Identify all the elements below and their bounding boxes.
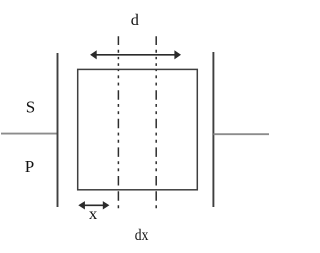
plate right capacitor plate: [212, 52, 214, 207]
svg-text:d: d: [131, 11, 139, 29]
svg-text:P: P: [25, 157, 34, 176]
svg-text:x: x: [89, 206, 97, 223]
plate S (left capacitor plate): [57, 53, 59, 207]
wire right lead: [213, 133, 269, 135]
axis line 1 (dash-dot centre line, left): [117, 36, 119, 210]
dimension arrow x (double-headed): [78, 201, 109, 209]
dielectric slab outline: [78, 69, 198, 189]
svg-text:dx: dx: [135, 227, 149, 244]
axis line 2 (dash-dot centre line, right): [155, 36, 157, 210]
dimension arrow d (double-headed): [90, 50, 181, 59]
svg-text:S: S: [26, 98, 35, 117]
wire left lead: [1, 133, 58, 135]
